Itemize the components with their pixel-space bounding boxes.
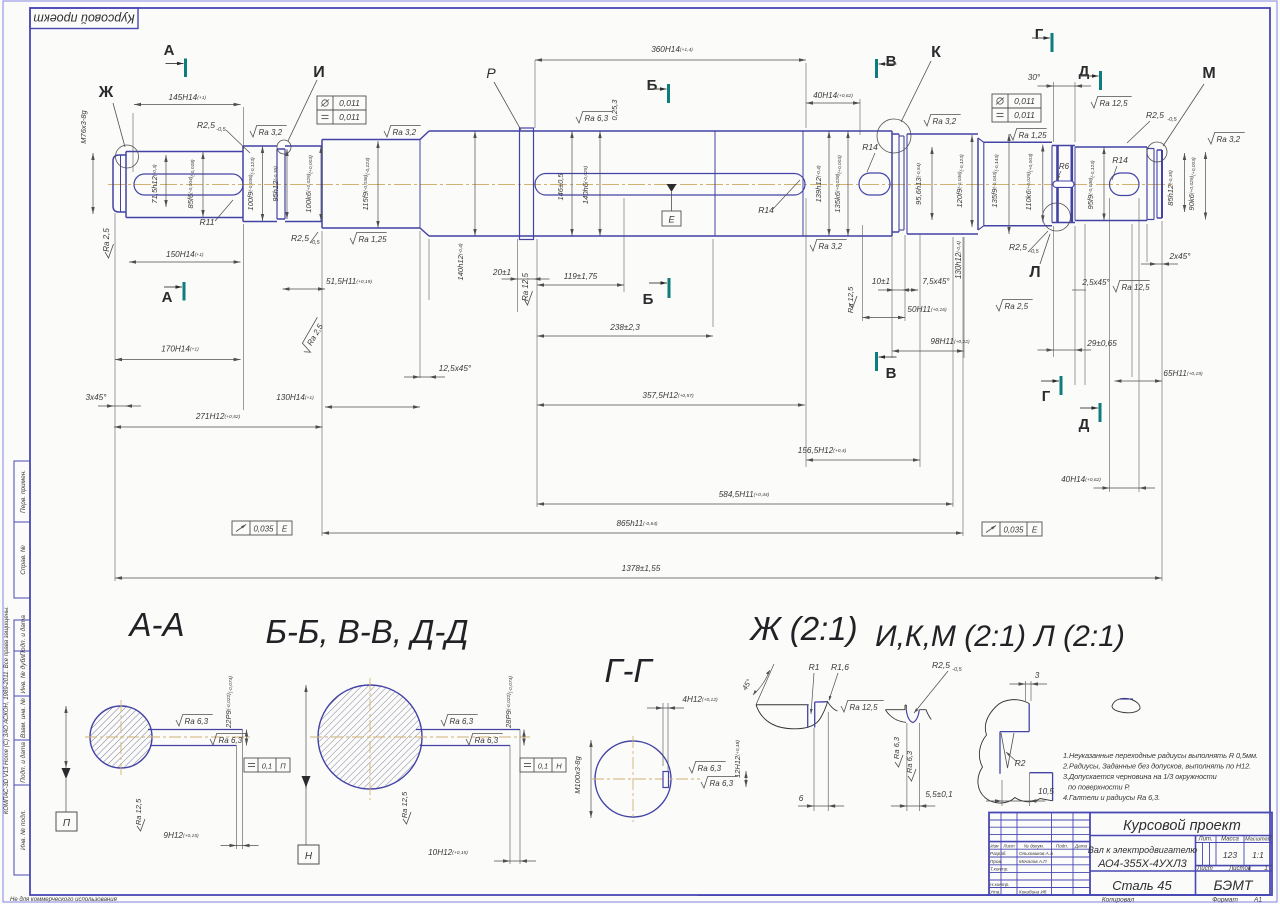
svg-text:R2,5: R2,5 (932, 660, 950, 670)
svg-text:3.Допускается черновина на 1/3: 3.Допускается черновина на 1/3 окружност… (1063, 772, 1217, 781)
svg-text:Ra 2,5: Ra 2,5 (1005, 302, 1029, 311)
svg-text:Ra 12,5: Ra 12,5 (400, 791, 409, 818)
svg-text:Инв. № подл.: Инв. № подл. (19, 810, 27, 851)
svg-text:Ra 6,3: Ra 6,3 (698, 764, 722, 773)
svg-text:Инв. № дубл.: Инв. № дубл. (19, 653, 27, 693)
svg-text:Б: Б (643, 291, 654, 308)
svg-text:Г: Г (1035, 26, 1044, 43)
svg-text:0,035: 0,035 (1003, 526, 1024, 535)
svg-text:Мочалов А.П: Мочалов А.П (1019, 859, 1047, 864)
svg-text:3х45°: 3х45° (85, 393, 107, 402)
svg-text:КОМПАС-3D V13 Home (С) ЗАО АСК: КОМПАС-3D V13 Home (С) ЗАО АСКОН, 1989-2… (4, 606, 10, 814)
svg-text:АО4-355Х-4УХЛ3: АО4-355Х-4УХЛ3 (1097, 858, 1187, 870)
svg-text:Г: Г (1042, 388, 1051, 405)
svg-text:Ra 6,3: Ra 6,3 (219, 736, 243, 745)
svg-text:Лист: Лист (1002, 844, 1015, 849)
svg-text:Ra 3,2: Ra 3,2 (933, 117, 957, 126)
svg-text:-0,5: -0,5 (1029, 249, 1039, 255)
svg-text:Н: Н (556, 762, 562, 771)
svg-text:12,5х45°: 12,5х45° (439, 364, 472, 373)
svg-text:Ra 6,3: Ra 6,3 (450, 717, 474, 726)
svg-text:А: А (164, 42, 175, 59)
svg-text:Лит.: Лит. (1197, 837, 1212, 843)
svg-text:М76х3-8g: М76х3-8g (79, 110, 88, 144)
svg-text:Ольховиков А.А: Ольховиков А.А (1019, 851, 1053, 856)
svg-text:Б: Б (647, 77, 658, 94)
svg-text:М: М (1202, 65, 1215, 82)
svg-text:0,011: 0,011 (339, 98, 360, 108)
svg-text:по поверхности Р.: по поверхности Р. (1068, 783, 1130, 792)
svg-text:БЭМТ: БЭМТ (1214, 877, 1254, 893)
svg-text:Ra 2,5: Ra 2,5 (102, 228, 111, 252)
svg-text:R14: R14 (758, 205, 774, 215)
svg-text:1378±1,55: 1378±1,55 (622, 564, 661, 573)
svg-text:Ra 3,2: Ra 3,2 (819, 242, 843, 251)
svg-text:Утв.: Утв. (990, 889, 1000, 894)
svg-text:0,035: 0,035 (253, 525, 274, 534)
svg-text:Листов: Листов (1228, 866, 1251, 872)
svg-text:Ra 3,2: Ra 3,2 (259, 128, 283, 137)
svg-text:Б-Б, В-В, Д-Д: Б-Б, В-В, Д-Д (265, 613, 468, 650)
svg-text:10±1: 10±1 (872, 277, 890, 286)
svg-text:Пров.: Пров. (990, 859, 1002, 864)
svg-text:R2,5: R2,5 (197, 120, 215, 130)
svg-text:Н: Н (305, 851, 313, 862)
svg-text:5,5±0,1: 5,5±0,1 (925, 790, 952, 799)
svg-text:Е: Е (282, 525, 288, 534)
svg-text:-0,5: -0,5 (1167, 117, 1177, 123)
svg-text:2.Радиусы, Заданные без допуск: 2.Радиусы, Заданные без допусков, выполн… (1062, 762, 1251, 771)
svg-text:Ra 6,3: Ra 6,3 (585, 114, 609, 123)
svg-text:7,5х45°: 7,5х45° (922, 277, 950, 286)
svg-text:Ra 12,5: Ra 12,5 (134, 798, 143, 825)
svg-text:Ra 12,5: Ra 12,5 (1122, 283, 1151, 292)
svg-text:2х45°: 2х45° (1168, 252, 1191, 261)
svg-text:Курсовой проект: Курсовой проект (1123, 818, 1241, 834)
svg-text:Ra 3,2: Ra 3,2 (393, 128, 417, 137)
svg-text:R11: R11 (200, 217, 215, 227)
svg-text:И,К,М (2:1) Л (2:1): И,К,М (2:1) Л (2:1) (875, 620, 1125, 653)
svg-text:Изм: Изм (990, 844, 998, 849)
svg-text:Разраб.: Разраб. (990, 851, 1007, 856)
svg-text:0,011: 0,011 (1014, 96, 1035, 106)
svg-text:Г-Г: Г-Г (605, 652, 654, 689)
svg-text:R2,5: R2,5 (291, 233, 309, 243)
svg-text:123: 123 (1223, 850, 1237, 860)
svg-text:Ra 6,3: Ra 6,3 (710, 779, 734, 788)
svg-text:Е: Е (668, 215, 675, 225)
svg-text:R2,5: R2,5 (1146, 110, 1164, 120)
svg-text:И: И (313, 64, 325, 81)
svg-text:1:1: 1:1 (1252, 850, 1264, 860)
svg-text:Т.контр.: Т.контр. (990, 867, 1009, 872)
svg-text:В: В (886, 365, 897, 382)
svg-text:П: П (63, 818, 71, 829)
svg-text:2,5х45°: 2,5х45° (1081, 278, 1110, 287)
svg-text:0,1: 0,1 (262, 762, 272, 771)
svg-text:Ra 6,3: Ra 6,3 (185, 717, 209, 726)
svg-text:20±1: 20±1 (492, 268, 511, 277)
svg-text:Д: Д (1079, 63, 1090, 80)
svg-text:146±0,5: 146±0,5 (556, 173, 565, 201)
svg-text:0,011: 0,011 (1014, 110, 1035, 120)
svg-text:R14: R14 (1112, 155, 1128, 165)
svg-text:Копировал: Копировал (1102, 897, 1135, 904)
svg-text:3: 3 (1035, 671, 1040, 680)
svg-text:Подп. и дата: Подп. и дата (19, 615, 27, 656)
svg-text:Перв. примен.: Перв. примен. (20, 470, 27, 513)
svg-text:Подп. и дата: Подп. и дата (19, 742, 27, 783)
svg-text:Формат: Формат (1212, 897, 1238, 904)
svg-text:Н.контр.: Н.контр. (990, 882, 1009, 887)
svg-text:А1: А1 (1253, 897, 1262, 904)
svg-text:R1,6: R1,6 (831, 662, 849, 672)
svg-text:Подп.: Подп. (1056, 844, 1068, 849)
svg-text:Сталь 45: Сталь 45 (1112, 878, 1172, 893)
svg-text:-0,5: -0,5 (216, 127, 226, 133)
svg-text:А-А: А-А (127, 606, 184, 643)
svg-text:М100х3-8g: М100х3-8g (573, 755, 582, 793)
svg-text:Ж (2:1): Ж (2:1) (748, 610, 857, 647)
svg-text:R1: R1 (809, 662, 820, 672)
svg-text:Ж: Ж (98, 84, 114, 101)
svg-text:Кокабина Иб: Кокабина Иб (1019, 889, 1047, 894)
svg-text:№ докум.: № докум. (1024, 844, 1044, 849)
svg-text:R6: R6 (1059, 162, 1070, 171)
svg-text:Ra 12,5: Ra 12,5 (846, 286, 855, 313)
svg-text:-0,5: -0,5 (952, 667, 962, 673)
svg-text:Лист: Лист (1196, 866, 1212, 872)
svg-text:R2: R2 (1015, 758, 1026, 768)
svg-text:119±1,75: 119±1,75 (564, 272, 598, 281)
svg-text:Дата: Дата (1074, 844, 1088, 849)
svg-text:10,5: 10,5 (1038, 787, 1054, 796)
svg-text:0,25,3: 0,25,3 (610, 99, 619, 121)
svg-text:238±2,3: 238±2,3 (609, 323, 640, 332)
svg-text:Ra 12,5: Ra 12,5 (521, 272, 530, 301)
svg-text:0,011: 0,011 (339, 112, 360, 122)
svg-text:30°: 30° (1028, 73, 1041, 82)
svg-text:4.Галтели и радиусы Ra 6,3.: 4.Галтели и радиусы Ra 6,3. (1063, 793, 1160, 802)
svg-text:Масса: Масса (1221, 837, 1239, 843)
svg-text:Ra 6,3: Ra 6,3 (892, 736, 901, 759)
svg-text:Е: Е (1032, 526, 1038, 535)
svg-text:Взам. инв. №: Взам. инв. № (20, 698, 27, 738)
svg-text:1.Неуказанные переходные радиу: 1.Неуказанные переходные радиусы выполня… (1063, 751, 1258, 760)
svg-text:Р: Р (486, 65, 496, 81)
svg-text:А: А (162, 289, 173, 306)
svg-text:R2,5: R2,5 (1009, 242, 1027, 252)
svg-text:1: 1 (1264, 865, 1268, 872)
svg-text:Ra 3,2: Ra 3,2 (1217, 135, 1241, 144)
svg-text:П: П (280, 762, 286, 771)
svg-text:Л: Л (1029, 264, 1040, 281)
svg-text:Ra 1,25: Ra 1,25 (359, 235, 388, 244)
svg-text:Масштаб: Масштаб (1245, 837, 1272, 843)
svg-text:Ra 6,3: Ra 6,3 (475, 736, 499, 745)
svg-text:В: В (886, 53, 897, 70)
svg-text:К: К (931, 44, 941, 61)
svg-text:29±0,65: 29±0,65 (1086, 339, 1117, 348)
svg-text:6: 6 (799, 794, 804, 803)
svg-text:Ra 6,3: Ra 6,3 (905, 750, 914, 773)
svg-text:Ra 12,5: Ra 12,5 (1100, 99, 1129, 108)
svg-text:Не для коммерческого использов: Не для коммерческого использования (10, 897, 118, 903)
svg-text:Д: Д (1079, 416, 1090, 433)
svg-text:Справ. №: Справ. № (20, 545, 27, 575)
svg-text:Ra 12,5: Ra 12,5 (850, 703, 879, 712)
svg-text:0,1: 0,1 (538, 762, 548, 771)
svg-text:R14: R14 (862, 142, 878, 152)
svg-text:Курсовой проект: Курсовой проект (33, 12, 134, 26)
svg-text:Ra 1,25: Ra 1,25 (1019, 131, 1048, 140)
svg-text:Вал к электродвигателю: Вал к электродвигателю (1088, 845, 1198, 855)
